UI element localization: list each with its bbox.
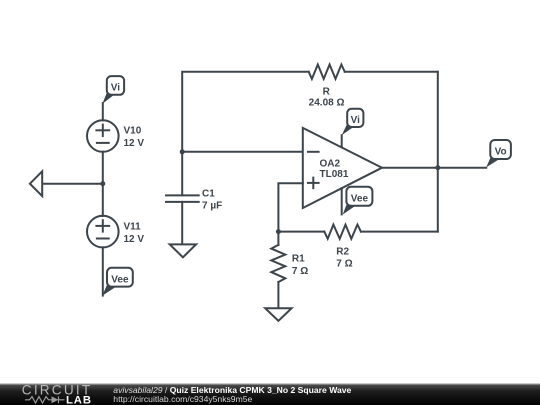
wire left arrow to node (42, 183, 103, 185)
svg-text:Vi: Vi (351, 115, 360, 126)
voltage source V11 (87, 216, 119, 248)
footer bar (0, 384, 540, 405)
ground below R1 (265, 308, 291, 321)
wire output (382, 167, 486, 169)
flag Vi (sources) (102, 76, 124, 104)
svg-text:LAB: LAB (66, 395, 92, 405)
svg-text:7 Ω: 7 Ω (292, 266, 308, 277)
svg-text:OA2: OA2 (320, 158, 341, 169)
svg-text:Vee: Vee (111, 274, 129, 285)
antenna terminal arrow (30, 171, 42, 196)
label C1 value (202, 188, 222, 211)
svg-text:Vo: Vo (495, 146, 507, 157)
wire C1 to ground (181, 202, 183, 245)
label V10 value (124, 126, 145, 150)
resistor R (309, 65, 345, 79)
wire right vertical (437, 72, 439, 232)
flag Vo (output) (486, 140, 511, 167)
wire top feedback left (182, 72, 309, 195)
op-amp OA2 (303, 128, 382, 214)
svg-text:R2: R2 (336, 246, 349, 257)
svg-text:R: R (323, 86, 331, 97)
voltage source V10 (87, 120, 119, 152)
wire V10 bottom to V11 top (102, 152, 104, 216)
node junction R1 R2 (276, 229, 281, 234)
svg-text:Vee: Vee (351, 194, 369, 205)
svg-text:12 V: 12 V (124, 234, 145, 245)
svg-text:TL081: TL081 (320, 169, 349, 180)
label R value (309, 86, 345, 108)
label R1 value (292, 254, 308, 277)
wire inverting input (182, 151, 303, 153)
label V11 value (124, 221, 145, 245)
svg-text:V10: V10 (124, 126, 142, 137)
wire R2 left lead (278, 231, 324, 233)
resistor R1 (271, 245, 285, 282)
svg-text:Vi: Vi (111, 83, 120, 94)
wire top feedback right (345, 71, 438, 73)
resistor R2 (324, 225, 361, 239)
node junction V sources (100, 181, 105, 186)
flag Vee (op-amp V-) (343, 187, 373, 215)
wire R1 bottom lead (277, 282, 279, 308)
wire non-inverting input (278, 183, 302, 231)
node junction inverting (180, 149, 185, 154)
wire R2 right lead (361, 231, 438, 233)
flag Vi (op-amp V+) (342, 109, 364, 136)
node junction output (435, 165, 440, 170)
svg-text:12 V: 12 V (124, 138, 145, 149)
label OA2 TL081 (320, 158, 349, 180)
svg-text:7 Ω: 7 Ω (336, 258, 352, 269)
svg-text:C1: C1 (202, 188, 215, 199)
svg-text:http://circuitlab.com/c934y5nk: http://circuitlab.com/c934y5nks9m5e (113, 394, 252, 404)
wire R1 top lead (277, 232, 279, 245)
ground below C1 (170, 244, 196, 257)
wire Vi flag to V10 top (102, 103, 104, 120)
svg-text:R1: R1 (292, 254, 305, 265)
wire V11 bottom to Vee flag (102, 247, 104, 295)
capacitor C1 (166, 195, 199, 202)
svg-text:24.08 Ω: 24.08 Ω (309, 98, 345, 109)
footer logo squiggle (25, 396, 65, 403)
label R2 value (336, 246, 352, 269)
svg-text:V11: V11 (124, 221, 142, 232)
flag Vee (sources) (102, 268, 133, 296)
svg-text:7 µF: 7 µF (202, 201, 222, 212)
